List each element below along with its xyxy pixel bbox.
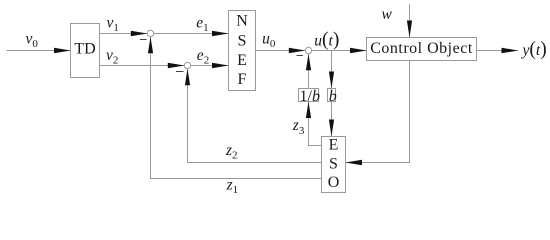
arrowhead into ESO top [329,120,334,137]
svg-text:w: w [382,6,393,23]
wire y feedback down from Control Object [346,61,410,163]
arrowhead into 1/b bottom [306,102,311,119]
svg-text:b: b [329,88,337,105]
arrowhead into NSEF bottom input [212,63,229,69]
arrowhead output [502,48,519,54]
svg-text:u(t): u(t) [314,29,339,50]
wire z3 from ESO left up into 1/b [309,102,322,146]
svg-text:E: E [329,137,339,154]
wire e2 (sum2 to NSEF) [191,65,229,67]
svg-text:S: S [329,156,338,173]
block Control Object [367,38,477,61]
arrowhead into sum1 [131,31,148,37]
block ESO [322,137,346,193]
arrowhead into TD [54,48,71,54]
arrowhead into Control Object [350,48,367,54]
wire b to ESO [331,102,333,137]
block NSEF [229,11,256,91]
arrowhead into sum3 [289,48,306,54]
svg-text:Control Object: Control Object [370,40,473,57]
arrowhead into b [329,72,334,89]
svg-text:1/b: 1/b [300,88,320,105]
wire v0 input [7,50,71,52]
svg-text:TD: TD [74,41,95,58]
wire v1 (TD to sum1) [100,33,148,35]
minus sign at sum3 [297,55,304,57]
wire w disturbance [409,4,411,38]
minus sign at sum1 [140,39,147,41]
minus sign at sum2 [176,71,184,73]
svg-text:N: N [236,12,248,29]
svg-text:S: S [238,32,247,49]
wire z2 from ESO left to sum2 [188,69,322,163]
wire b branch down from u(t) [331,51,333,89]
wire 1/b up to sum3 [308,54,310,89]
arrowhead into ESO right [346,160,363,166]
wire u(t) (sum3 to Control Object) [312,50,367,52]
wire e1 (sum1 to NSEF) [154,33,229,35]
block 1/b [299,89,319,102]
svg-text:F: F [238,71,247,88]
wire z1 from ESO left to sum1 [151,37,322,179]
block b [328,89,336,102]
summing node sum2 [184,62,190,68]
arrowhead into sum3 bottom [306,54,311,70]
arrowhead into sum2 bottom [185,69,190,86]
wire v2 (TD to sum2) [100,65,185,67]
wire u0 (NSEF to sum3) [256,50,306,52]
arrowhead into NSEF top input [212,31,229,37]
svg-text:E: E [237,52,247,69]
summing node sum1 [147,30,153,36]
arrowhead w into Control Object [407,21,412,38]
arrowhead into sum1 bottom [148,37,153,54]
block TD [71,24,100,78]
arrowhead into sum2 [168,63,185,69]
svg-text:O: O [328,174,340,191]
svg-text:y(t): y(t) [521,39,547,60]
wire y(t) output [477,50,519,52]
summing node sum3 [305,47,311,53]
